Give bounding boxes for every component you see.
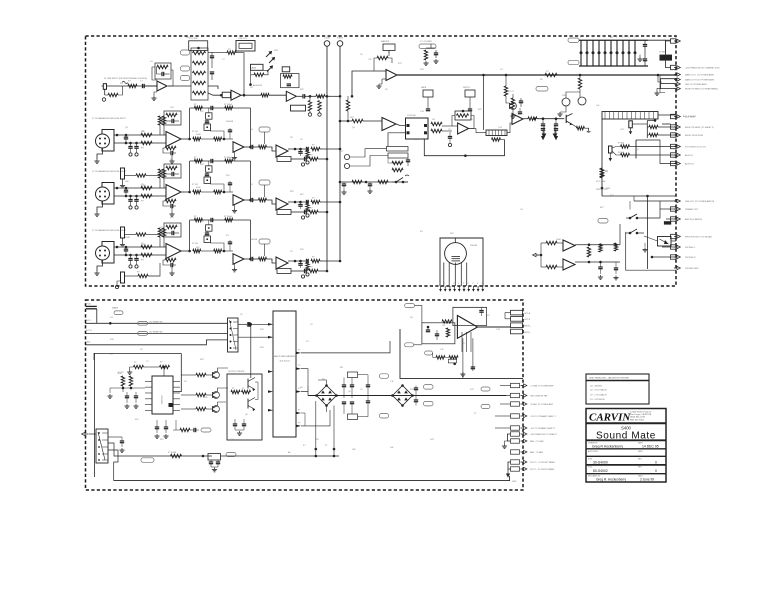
channel 3 EQ pot VR2: [204, 177, 210, 183]
mains switch wires: [108, 443, 212, 456]
effects pot 1: [423, 90, 433, 97]
svg-text:C? +POWER: C? +POWER: [420, 41, 432, 43]
mute cap stack 2: [555, 119, 557, 124]
top schematic sheet dashed border: [86, 36, 677, 286]
pin EFFECTS RETURN: [671, 133, 677, 137]
title block divider 5: [586, 464, 666, 466]
channel 1 bus taps: [326, 95, 329, 98]
pin -15V TO PREAMP SHEET 1: [511, 426, 520, 430]
svg-text:LOW CUT: LOW CUT: [238, 38, 248, 40]
channel 4 XLR connector J: [102, 242, 114, 264]
aux master op-amp U5B: [382, 118, 396, 131]
channel 4 EQ mid resistor pair: [214, 249, 222, 252]
ps cluster ground 2: [109, 388, 111, 393]
title block outer: [586, 409, 666, 483]
ps below-IC caps: [155, 426, 159, 428]
channel 3 out line R: [291, 211, 304, 213]
title block divider 4: [586, 455, 666, 457]
channel 4 bus taps: [339, 260, 342, 263]
channel 2 feedback network box: [164, 111, 181, 125]
power amp inner caps: [435, 333, 439, 335]
ps box outline top: [94, 353, 181, 360]
channel 4 EQ left loop vline: [189, 220, 191, 251]
channel 4 lower feedback R C: [165, 258, 176, 261]
svg-text:0: 0: [655, 469, 657, 473]
channel 2 level resistor R: [259, 145, 267, 148]
channel 2 bus term resistor: [306, 151, 309, 160]
supply ladder diodes: [580, 40, 582, 66]
regulator resistors: [134, 365, 144, 368]
svg-text:R?: R?: [194, 157, 196, 159]
svg-text:(TO XFMR PRI): (TO XFMR PRI): [149, 322, 163, 324]
master volume resistor on line: [545, 73, 557, 76]
channel 3 bus term ring: [306, 214, 309, 217]
channel 2 wire input pair: [114, 134, 166, 136]
channel 3 series resistors R: [141, 186, 152, 189]
supply ladder rails: [579, 39, 648, 41]
channel 3 feedback ground: [171, 208, 173, 212]
svg-text:PHONES L: PHONES L: [685, 247, 696, 249]
pin FAN - TO FAN: [511, 450, 520, 454]
channel 1 low-cut switch box: [236, 41, 255, 52]
channel 3 insert resistor R: [136, 174, 146, 177]
power amp inner box: [422, 323, 455, 344]
channel 1 bus term resistor 2: [318, 101, 321, 112]
master op-amp U5A: [386, 70, 397, 81]
channel 4 out line R: [291, 270, 304, 272]
svg-text:MAINS: MAINS: [112, 307, 119, 310]
pin AUX IN L: [671, 153, 677, 157]
speaker jumper wires: [505, 312, 511, 314]
channel 4 RF caps below: [128, 258, 132, 260]
svg-text:U2 : 4 TL072ACN: U2 : 4 TL072ACN: [590, 389, 607, 392]
svg-text:R BUS: R BUS: [337, 38, 344, 40]
svg-text:SW?: SW?: [274, 50, 278, 52]
channel 1 EQ fader box: [189, 41, 208, 51]
channel 2 EQ mid cap: [228, 129, 232, 131]
power amp top rail: [453, 306, 487, 308]
channel 1 feedback wires: [152, 67, 157, 80]
svg-text:GND CENTER TAP: GND CENTER TAP: [530, 395, 548, 398]
pin AUX IN R: [671, 161, 677, 165]
block2 extra resistor: [600, 168, 603, 178]
svg-text:30-S 4001-B: 30-S 4001-B: [279, 361, 290, 363]
pin MAIN OUT L (TO POWER AMP): [674, 73, 680, 76]
channel 1 fb2 loop: [208, 52, 227, 54]
bus wire right: [339, 46, 341, 261]
pin FOOTSWITCH (TO J?): [671, 144, 677, 148]
channel 1 feedback box: [155, 63, 171, 79]
svg-text:R?: R?: [194, 104, 196, 106]
main out wire L: [397, 74, 676, 76]
aux input resistor 2: [346, 100, 349, 111]
channel 2 EQ cap C2: [205, 120, 209, 122]
svg-text:MISC SEMICOND + VALUES NOT SHO: MISC SEMICOND + VALUES NOT SHOWN: [590, 377, 630, 380]
channel 1 level box: [282, 67, 290, 72]
channel 4 EQ top cap: [210, 218, 212, 222]
svg-text:100K: 100K: [196, 134, 201, 136]
svg-text:FOOTSWITCH (TO J?): FOOTSWITCH (TO J?): [685, 147, 706, 149]
channel 3 RF caps below: [128, 199, 132, 201]
channel 1 EQ wires: [197, 50, 199, 52]
svg-text:J? CH BALANCED MIC/LINE INPUT: J? CH BALANCED MIC/LINE INPUT: [92, 117, 127, 120]
channel 2 lower feedback R C: [165, 146, 176, 149]
ps connector out wires: [238, 323, 247, 325]
svg-text:+15V TO PREAMP SHEET 1: +15V TO PREAMP SHEET 1: [530, 415, 557, 418]
channel 4 aux pot: [259, 239, 270, 244]
power amp IC U11 triangle: [457, 316, 477, 339]
bus terminal circle right: [337, 41, 343, 47]
transformer primary lead: [454, 238, 456, 243]
channel 1 op-amp U1B: [231, 90, 241, 100]
svg-text:DATE: DATE: [638, 450, 643, 453]
headphone out network: [587, 247, 590, 257]
channel 1 mon send rect: [291, 105, 306, 111]
left branch cluster: [510, 103, 517, 110]
block2 jack J: [609, 146, 613, 153]
svg-text:OUT A: OUT A: [524, 312, 531, 315]
jack switch SW upper: [626, 217, 630, 219]
send return jacks: [344, 154, 349, 159]
channel 2 EQ left loop vline: [189, 108, 191, 139]
svg-text:CARVIN: CARVIN: [589, 411, 631, 423]
return resistor R40: [352, 180, 362, 183]
channel 1 out resistor: [316, 95, 325, 98]
mute fet branch: [578, 78, 581, 89]
relay wires: [644, 201, 660, 218]
channel 1 wire post: [241, 94, 261, 96]
svg-text:+48V PHANTOM TO SHEET 1: +48V PHANTOM TO SHEET 1: [530, 433, 558, 436]
svg-text:MAIN POWER HARNESS: MAIN POWER HARNESS: [274, 355, 296, 358]
svg-text:D1 : 14 1N4148: D1 : 14 1N4148: [590, 399, 605, 401]
power amp enclosure: [400, 329, 523, 378]
svg-text:ACC SEND: ACC SEND: [685, 116, 696, 119]
ribbon wire 6: [301, 413, 305, 426]
svg-text:GND: GND: [512, 481, 517, 483]
svg-text:P?: P?: [298, 410, 300, 412]
main R pin wire: [662, 123, 671, 125]
channel 3 wire preamp out: [181, 191, 190, 193]
filter caps C22 C23: [366, 384, 370, 386]
rail labels: [380, 374, 389, 379]
feedback stadium: [425, 351, 433, 355]
channel 3 EQ mid resistor pair: [214, 190, 222, 193]
svg-text:p: p: [449, 283, 450, 285]
svg-text:R? 15K: R? 15K: [192, 243, 199, 245]
power transformer T1: [445, 243, 467, 265]
title block divider 2: [586, 439, 666, 441]
channel 4 EQ top resistor Ra: [194, 218, 202, 221]
regulator resistor drop: [163, 367, 165, 376]
mute transistor Q2: [578, 97, 586, 105]
channel 2 bus taps: [339, 148, 342, 151]
power rail label +: [568, 38, 579, 42]
aux input resistor: [352, 119, 363, 122]
ribbon to amp wire 1: [301, 341, 390, 353]
power amp pins down: [461, 332, 463, 352]
channel 3 preamp op-amp U: [166, 185, 181, 200]
ribbon to amp wire 2: [301, 369, 308, 386]
channel 2 out line R: [291, 158, 304, 160]
channel 1 input jack J1: [103, 84, 106, 90]
channel 4 wire input pair: [114, 246, 166, 248]
svg-text:EFFECTS SEND (TO SHEET 2): EFFECTS SEND (TO SHEET 2): [685, 127, 714, 129]
effects pot 2: [465, 90, 475, 97]
svg-text:47uF: 47uF: [586, 253, 591, 255]
svg-text:F? FUSE: F? FUSE: [168, 452, 177, 454]
bus wire left: [326, 46, 328, 271]
channel 4 aux jack wire: [125, 275, 139, 277]
send return resistors: [392, 161, 403, 164]
channel 4 bus term resistor: [306, 263, 309, 272]
channel 1 EQ resistors: [193, 51, 206, 54]
svg-text:AUX BUS: AUX BUS: [253, 84, 262, 87]
return switch SW5: [392, 181, 396, 183]
channel 1 op-amp U1C: [286, 91, 296, 101]
channel 3 EQ top cap: [210, 159, 212, 163]
mains label: [141, 458, 154, 463]
channel 2 out cap R: [304, 157, 306, 161]
speaker out terminals: [511, 310, 523, 315]
channel 2 aux pot: [259, 127, 270, 132]
bridge2 caps: [414, 387, 418, 389]
channel 2 out ground ring: [301, 163, 304, 166]
mute cap stack 1: [542, 119, 544, 124]
ps input labels: [114, 311, 123, 315]
channel 4 level resistor R: [259, 257, 267, 260]
mov caps: [209, 461, 213, 463]
channel 2 XLR connector J: [102, 130, 114, 152]
svg-text:p: p: [482, 283, 483, 285]
channel 1 wire in: [107, 85, 158, 87]
svg-text:R? 560pF: R? 560pF: [224, 157, 233, 159]
power transformer enclosure: [440, 238, 483, 286]
svg-text:47uF: 47uF: [160, 227, 165, 229]
svg-text:J? CH BALANCED MIC/LINE INPUT: J? CH BALANCED MIC/LINE INPUT: [92, 170, 127, 173]
relay diode blob: [664, 221, 671, 224]
channel 3 bus term resistor: [306, 204, 309, 213]
channel 4 out cap R: [304, 269, 306, 273]
channel 2 series resistors R: [141, 133, 152, 136]
title block divider 3: [586, 448, 666, 450]
pin PHONES R: [671, 255, 677, 259]
channel 4 coupling cap C: [250, 257, 252, 261]
supply out wire: [666, 39, 671, 41]
channel 3 EQ cap C2: [205, 173, 209, 175]
channel 2 out resistor L: [311, 147, 320, 150]
svg-text:(800) 854-2235: (800) 854-2235: [630, 417, 646, 419]
channel 3 inter cap: [298, 204, 302, 206]
channel 4 insert resistor R: [136, 233, 146, 236]
harness drop wire: [173, 353, 181, 391]
ps line label 2: [138, 332, 148, 336]
svg-text:GND: GND: [86, 342, 91, 344]
channel 1 resistor R2: [128, 84, 137, 87]
channel 3 coupling cap C: [250, 198, 252, 202]
mute relay K1: [658, 237, 672, 247]
filter caps C20 C21: [342, 384, 346, 386]
svg-text:PHONES GND: PHONES GND: [685, 268, 699, 270]
channel 4 aux jack ground: [115, 285, 118, 288]
speaker pin wires mid: [506, 395, 510, 397]
svg-text:PILOT + TO FRONT PANEL: PILOT + TO FRONT PANEL: [530, 461, 556, 464]
pin LINE OUT (TO POWER AMP IN): [674, 199, 680, 202]
ps below-IC res cap: [180, 428, 190, 431]
svg-text:p: p: [440, 283, 441, 285]
channel 2 EQ pot VR2: [204, 124, 210, 130]
svg-text:R? C?: R? C?: [508, 91, 515, 93]
pin PILOT - TO FRONT PANEL: [511, 467, 520, 471]
block2 vertical main drop: [601, 119, 603, 196]
headphone in resistors: [546, 241, 557, 244]
svg-text:R?: R?: [232, 388, 234, 390]
fader ground arrows: [543, 126, 545, 134]
channel 1 switch arrow 1: [266, 52, 272, 58]
mains cap: [120, 440, 124, 442]
svg-text:DEPTH: DEPTH: [463, 87, 470, 89]
channel 2 EQ mid resistor pair: [214, 137, 222, 140]
channel 2 mid op-amp U2: [233, 142, 244, 153]
ribbon pins left: [268, 323, 273, 326]
pin +48V PHANTOM TO SHEET 1: [511, 432, 520, 436]
effects below cap: [448, 136, 452, 138]
block2 resistor Rb: [621, 153, 630, 156]
channel 1 mid resistor R: [261, 94, 269, 97]
channel 4 out ground ring: [301, 275, 304, 278]
headphone caps: [598, 266, 602, 268]
mute transistor Q1: [562, 98, 570, 106]
svg-text:U? ECHO: U? ECHO: [407, 115, 416, 117]
svg-text:P?: P?: [298, 365, 300, 367]
ps cap blob at connector: [247, 322, 250, 327]
channel 4 preamp op-amp U: [166, 244, 181, 259]
channel 1 bus term ground 2: [318, 113, 321, 116]
svg-text:P?: P?: [298, 422, 300, 424]
channel 1 fb3 loop: [281, 74, 300, 88]
left branch resistor: [504, 86, 507, 96]
channel 3 post op-amp U3: [276, 198, 288, 210]
ps connector out wire 2: [238, 336, 272, 338]
channel 1 switch arrow 2: [269, 58, 275, 64]
send return label: [387, 147, 409, 152]
svg-text:PREAMP OUT: PREAMP OUT: [685, 208, 699, 211]
channel 4 feedback ground: [171, 267, 173, 271]
svg-text:+48V PHANTOM (TO CHANNEL XLR): +48V PHANTOM (TO CHANNEL XLR): [685, 67, 720, 70]
block2 drop resistor: [600, 169, 603, 178]
svg-text:GND (TO POWER AMP): GND (TO POWER AMP): [685, 83, 707, 86]
channel 4 out cap L: [306, 259, 308, 263]
channel 3 out resistor L: [311, 200, 320, 203]
channel 3 RF cap between: [124, 189, 128, 191]
return cap C31: [368, 183, 372, 185]
channel 2 preamp op-amp U: [166, 132, 181, 147]
return resistor R41: [378, 180, 388, 183]
svg-text:R?: R?: [194, 216, 196, 218]
svg-text:1N4148: 1N4148: [226, 121, 234, 123]
svg-text:AUX IN L: AUX IN L: [685, 154, 694, 157]
channel 3 aux pot: [259, 180, 270, 185]
pin MAIN OUT R (TO POWER AMP): [674, 78, 680, 81]
svg-text:R?: R?: [312, 145, 314, 147]
block2 resistor Ra: [621, 145, 630, 148]
headphone couple wires: [619, 224, 621, 245]
output stage wires: [255, 381, 258, 383]
svg-text:100K: 100K: [117, 373, 122, 375]
svg-text:San Diego, CA 92128: San Diego, CA 92128: [630, 413, 652, 416]
channel 3 U2 ground: [234, 205, 236, 209]
channel 1 EQ stack outline: [191, 48, 208, 100]
ps input stub 2: [86, 308, 97, 310]
svg-text:p: p: [444, 283, 445, 285]
channel 3 EQ right loop vline: [250, 161, 252, 200]
channel 2 RF cap between: [124, 136, 128, 138]
ac center rail: [308, 395, 506, 397]
channel 2 RF caps below: [128, 146, 132, 148]
ps left bus vertical: [94, 353, 96, 477]
title block divider 1: [586, 422, 666, 424]
pin GND CENTER TAP: [511, 393, 520, 397]
channel 2 EQ top resistor Ra: [194, 106, 202, 109]
return cap C30: [342, 183, 346, 185]
channel 4 wire preamp out: [181, 250, 190, 252]
svg-text:MASTER: MASTER: [381, 40, 390, 43]
channel 1 EQ pots: [181, 50, 190, 55]
main out bracket ground: [657, 89, 661, 91]
channel 4 EQ input resistor: [193, 249, 201, 252]
channel 2 EQ input resistor: [193, 137, 201, 140]
bottom right bracket 1: [508, 434, 511, 441]
svg-text:-V RAIL TO POWER AMP: -V RAIL TO POWER AMP: [530, 403, 554, 406]
svg-text:OUT B: OUT B: [524, 319, 531, 321]
bridge1 bottom lead: [326, 406, 328, 413]
channel 2 out resistor R: [309, 157, 318, 160]
channel 3 insert jack J: [121, 168, 125, 179]
channel 3 EQ top resistor Ra: [194, 159, 202, 162]
mov label: [226, 453, 236, 457]
notes box: [586, 374, 649, 404]
transformer pin arrows: [440, 286, 442, 289]
post fader network: [511, 98, 514, 108]
channel 3 out line L: [288, 201, 306, 203]
ribbon header J11: [273, 311, 296, 437]
channel 2 coupling cap C: [250, 145, 252, 149]
channel 2 U2 ground: [234, 152, 236, 156]
return bus wire: [340, 181, 408, 183]
effects IC U6: [406, 118, 429, 139]
channel 4 out resistor L: [311, 259, 320, 262]
svg-text:-15V TO PREAMP SHEET 1: -15V TO PREAMP SHEET 1: [530, 427, 556, 430]
block2 res row 2: [649, 133, 658, 136]
post fader out resistor: [528, 117, 537, 120]
post fader out: [523, 118, 528, 120]
svg-text:R?: R?: [242, 388, 244, 390]
transformer winding marks: [452, 256, 461, 258]
output stage box: [227, 374, 262, 440]
channel 4 RF cap between: [124, 248, 128, 250]
channel 1 wire mid: [208, 93, 222, 95]
bottom right bracket 2: [511, 461, 513, 463]
channel 4 bus term ring: [306, 273, 309, 276]
accessory strip rect: [602, 112, 658, 120]
svg-text:80-S4002: 80-S4002: [593, 469, 608, 473]
mute transistor Q5: [565, 115, 567, 123]
channel 3 pan label: [277, 210, 291, 215]
channel 2 EQ top resistor Rb: [225, 106, 233, 109]
channel 1 jack shield resistor: [104, 89, 106, 95]
echo return wire: [388, 133, 400, 147]
channel 1 ground op-amp: [154, 92, 157, 96]
channel 2 pan label: [277, 157, 291, 162]
